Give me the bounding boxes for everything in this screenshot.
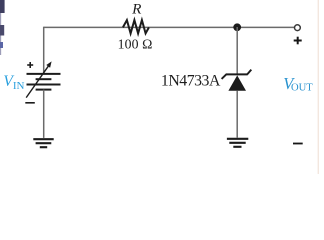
variable-source arrow through battery <box>26 61 51 97</box>
wire: zener anode down to ground <box>236 91 238 138</box>
page-edge artifacts (cut-off content at left margin) <box>0 0 5 55</box>
label: VOUT <box>283 74 313 94</box>
label: − (source negative) <box>25 102 35 104</box>
label: VIN <box>3 73 24 92</box>
ground (zener side) <box>227 139 248 147</box>
svg-text:IN: IN <box>13 80 25 92</box>
wire: source bottom down to ground <box>43 90 45 138</box>
wire: left vertical from top wire down to source <box>43 27 45 73</box>
output terminal (open circle) <box>295 25 301 31</box>
svg-text:OUT: OUT <box>291 83 313 94</box>
label: + (source positive) <box>27 62 33 68</box>
node: junction of resistor, zener and output <box>233 23 241 31</box>
faint page fold line at right margin <box>317 0 319 174</box>
svg-text:R: R <box>131 0 142 17</box>
ground (source side) <box>33 139 53 147</box>
svg-text:1N4733A: 1N4733A <box>161 73 221 90</box>
resistor R (zigzag) <box>123 20 149 33</box>
source VIN: variable battery <box>27 74 61 90</box>
zener diode D1 (1N4733A), cathode up <box>222 70 252 91</box>
wire: top horizontal from source corner to output terminal <box>44 26 294 28</box>
svg-text:100 Ω: 100 Ω <box>118 37 153 52</box>
label: + (output) <box>294 37 302 45</box>
wire: junction down to zener cathode <box>236 27 238 74</box>
label: − (output) <box>293 143 303 145</box>
